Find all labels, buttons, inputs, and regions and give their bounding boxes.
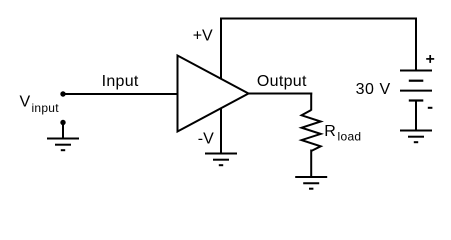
svg-text:input: input [32,101,60,115]
svg-text:+V: +V [193,28,213,45]
svg-text:load: load [338,130,362,144]
op-amp amplifier triangle [178,56,249,132]
label: Rload [324,123,361,144]
wire: resistor top lead [310,93,312,111]
ground symbol at R_load [295,177,327,189]
svg-text:Output: Output [257,73,307,90]
svg-text:30 V: 30 V [356,81,391,98]
battery positive polarity mark + [426,55,434,63]
wire: +V supply vertical from amplifier top edge [220,18,222,80]
node: Vinput ground terminal dot [60,120,65,125]
ground symbol at -V supply [205,154,237,166]
svg-text:R: R [324,123,336,140]
wire: Vinput ground stem [62,123,64,139]
battery B1 plate short bottom (-) [409,99,424,101]
resistor R_load zigzag [302,110,321,151]
label: Vinput [20,94,60,116]
battery negative polarity mark - [428,107,433,109]
wire: battery positive lead [415,18,417,71]
wire: resistor bottom lead [310,150,312,178]
wire: top supply rail [220,18,417,20]
battery B1 plate long top (+) [400,70,432,72]
wire: output from amplifier apex [248,93,312,95]
battery B1 plate short [409,80,424,82]
wire: -V lead from amplifier bottom edge to ground [220,108,222,154]
wire: battery negative lead [415,101,417,131]
svg-text:-V: -V [198,131,214,148]
node: Vinput terminal junction dot [60,91,65,96]
ground symbol at Vinput [47,139,79,151]
svg-text:V: V [20,94,31,111]
battery B1 plate long [400,90,432,92]
svg-text:Input: Input [102,73,139,90]
wire: input signal from Vinput terminal to amplifier input [63,93,177,95]
ground symbol at battery [400,131,432,143]
